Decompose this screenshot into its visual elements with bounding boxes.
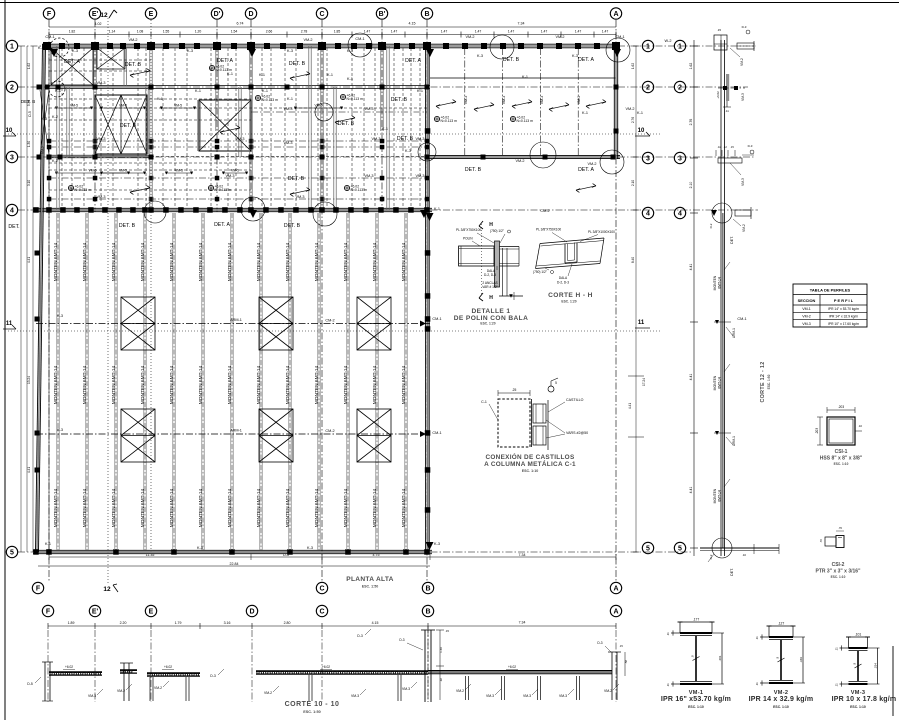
- svg-text:DET. A: DET. A: [578, 57, 594, 63]
- detail1 polin box: [459, 246, 494, 266]
- wall row5: [33, 550, 432, 553]
- svg-text:VM-3: VM-3: [741, 93, 745, 101]
- svg-text:6.74: 6.74: [237, 22, 244, 26]
- section row5 detail: [700, 538, 779, 576]
- svg-text:4.75: 4.75: [373, 553, 380, 557]
- dim text right 2.76: [631, 117, 635, 123]
- corte10 label VM-3: [523, 689, 538, 698]
- svg-text:+6.02: +6.02: [65, 665, 73, 669]
- joist labels x58: [53, 242, 59, 527]
- svg-text:K-3: K-3: [434, 542, 440, 546]
- svg-text:DET. B: DET. B: [125, 62, 142, 68]
- svg-text:ESC. 1:50: ESC. 1:50: [767, 374, 771, 389]
- svg-text:17.24: 17.24: [642, 378, 646, 386]
- corte10 col stub: [120, 663, 133, 701]
- svg-text:CASTILLO: CASTILLO: [566, 398, 584, 402]
- grid bubble B' top: [376, 8, 387, 19]
- svg-text:E': E': [92, 11, 99, 18]
- svg-text:ESC. 1:20: ESC. 1:20: [561, 300, 576, 304]
- svg-text:VM-3: VM-3: [402, 687, 410, 691]
- svg-text:K-3: K-3: [187, 49, 193, 53]
- svg-text:10: 10: [6, 128, 13, 134]
- svg-text:6MT-14: 6MT-14: [718, 277, 722, 289]
- corte10 grid dash C: [321, 630, 323, 702]
- upper block sub grid horizontals: [49, 60, 427, 190]
- svg-text:N=0.113 m: N=0.113 m: [215, 188, 232, 192]
- svg-text:4.41: 4.41: [27, 467, 31, 473]
- joist MONTEN x348: [347, 213, 349, 550]
- sheet border top: [0, 2, 899, 4]
- svg-text:K-3: K-3: [405, 149, 411, 153]
- leader arrow mark: [130, 186, 150, 195]
- svg-text:(750) 1/2": (750) 1/2": [533, 270, 547, 274]
- grid bubble 2 section: [674, 81, 685, 92]
- detail bubble: [418, 143, 436, 161]
- svg-text:CM-1: CM-1: [432, 431, 441, 435]
- title CORTE 10-10: [285, 701, 340, 714]
- grid bubble F bottom: [32, 582, 43, 593]
- svg-text:K-1: K-1: [45, 542, 51, 546]
- label K-3: [307, 546, 313, 550]
- svg-text:VM-3: VM-3: [96, 195, 105, 199]
- svg-text:VM-2: VM-2: [154, 686, 162, 690]
- svg-text:.15: .15: [730, 145, 734, 149]
- svg-text:CM-2: CM-2: [540, 209, 549, 213]
- svg-text:POLIN: POLIN: [463, 237, 473, 241]
- svg-text:1.40: 1.40: [439, 647, 443, 653]
- svg-text:1.47: 1.47: [364, 30, 371, 34]
- svg-text:MONTEN 6MT-14: MONTEN 6MT-14: [82, 242, 88, 281]
- label VM-2: [128, 38, 137, 42]
- corte10 label VM-3: [559, 689, 574, 698]
- label DET. B: [120, 123, 137, 129]
- csi2 dims: [819, 526, 844, 543]
- leader arrow mark: [130, 69, 150, 78]
- grid bubble 4 left: [6, 204, 17, 215]
- corte10 elev label: [320, 665, 332, 670]
- svg-text:B': B': [379, 11, 386, 18]
- detail1 text 750: [490, 229, 510, 243]
- svg-text:MONTEN 6MT-14: MONTEN 6MT-14: [285, 365, 291, 404]
- dim chain left a: [20, 46, 22, 552]
- grid bubble 2 left: [6, 81, 17, 92]
- grid line D: [250, 20, 252, 212]
- svg-text:2.76: 2.76: [631, 117, 635, 123]
- svg-text:MONTEN 6MT-14: MONTEN 6MT-14: [372, 488, 378, 527]
- grid bubble D top: [245, 8, 256, 19]
- table row VM-2: [802, 315, 858, 319]
- label K-3: [38, 46, 44, 50]
- svg-text:VM-5: VM-5: [119, 169, 127, 173]
- svg-text:VM-5: VM-5: [174, 104, 182, 108]
- svg-text:DET. A: DET. A: [578, 167, 594, 173]
- label DET. A: [214, 222, 230, 228]
- svg-text:.127: .127: [778, 622, 785, 626]
- svg-text:1.62: 1.62: [689, 63, 693, 70]
- cut marker 11 right: [635, 320, 650, 328]
- svg-text:VM-2: VM-2: [625, 107, 634, 111]
- grid bubble C bottom: [316, 582, 327, 593]
- svg-text:IPR 14" x 32.9 kg/m: IPR 14" x 32.9 kg/m: [829, 315, 858, 319]
- hall brace box upper x357: [357, 297, 391, 350]
- wall triangle: [613, 49, 621, 57]
- svg-text:MONTEN 6MT-14: MONTEN 6MT-14: [314, 242, 320, 281]
- corte10 label VM-2: [604, 684, 619, 693]
- svg-text:DET. A: DET. A: [217, 58, 233, 64]
- grid bubble 3 section: [674, 152, 685, 163]
- svg-text:MONTEN 6MT-14: MONTEN 6MT-14: [372, 365, 378, 404]
- cut line 11: [8, 330, 660, 332]
- grid bubble 4 right: [642, 207, 653, 218]
- colA squares: [614, 85, 619, 134]
- label VM-3: [415, 137, 424, 141]
- svg-text:1.79: 1.79: [175, 621, 182, 625]
- label K-1: [157, 97, 163, 101]
- border segment right: [892, 646, 894, 716]
- svg-text:ESC. 1:10: ESC. 1:10: [522, 469, 539, 473]
- svg-text:MONTEN 6MT-14: MONTEN 6MT-14: [343, 242, 349, 281]
- svg-text:K-1: K-1: [582, 111, 588, 115]
- svg-text:K-1: K-1: [347, 77, 353, 81]
- dim text right 1.62: [631, 63, 635, 69]
- svg-text:D-3: D-3: [597, 641, 602, 645]
- label VM-2: [555, 35, 564, 39]
- svg-text:VM-2: VM-2: [802, 315, 811, 319]
- section dim 4.41: [689, 264, 693, 271]
- svg-text:VM-3: VM-3: [523, 694, 531, 698]
- svg-text:TABLA DE PERFILES: TABLA DE PERFILES: [810, 288, 851, 293]
- svg-text:A: A: [613, 11, 618, 18]
- castillo column: [321, 46, 323, 210]
- grid bubble D' top: [211, 8, 222, 19]
- cut line 10: [8, 133, 660, 135]
- svg-text:MONTEN 6MT-14: MONTEN 6MT-14: [372, 242, 378, 281]
- svg-text:6MT-14: 6MT-14: [718, 377, 722, 389]
- svg-text:MONTEN 6MT-14: MONTEN 6MT-14: [53, 365, 59, 404]
- cut line 12 vertical: [107, 18, 109, 584]
- svg-text:.11: .11: [835, 647, 839, 651]
- svg-text:ARM-1: ARM-1: [230, 318, 242, 322]
- detail bubble: [490, 35, 514, 59]
- detail1 text POLIN: [463, 237, 480, 247]
- svg-text:K-1: K-1: [157, 97, 163, 101]
- wing sub grid vertical: [539, 48, 541, 156]
- section dim 4.41: [689, 487, 693, 494]
- svg-text:C: C: [319, 609, 324, 616]
- svg-text:IPR 14" x 53.70 kg/m: IPR 14" x 53.70 kg/m: [828, 307, 859, 311]
- label K-1: [434, 207, 440, 211]
- corte10 dim line: [48, 621, 616, 629]
- svg-text:MONTEN 6MT-14: MONTEN 6MT-14: [256, 488, 262, 527]
- grid bubble 5 section: [674, 542, 685, 553]
- section row1 detail: [714, 25, 754, 66]
- interior dim VM-5: [160, 104, 196, 110]
- svg-text:ARM-1: ARM-1: [230, 429, 242, 433]
- svg-text:VM-3: VM-3: [225, 174, 234, 178]
- csi2 squares: [825, 536, 844, 548]
- svg-text:MONTEN 6MT-14: MONTEN 6MT-14: [82, 488, 88, 527]
- label VM-3: [283, 141, 292, 145]
- svg-text:.254: .254: [874, 663, 878, 669]
- corte10 label VM-2: [456, 684, 471, 693]
- castillo column: [94, 46, 96, 154]
- svg-text:MONTEN 6MT-14: MONTEN 6MT-14: [111, 365, 117, 404]
- svg-text:MONTEN 6MT-14: MONTEN 6MT-14: [285, 488, 291, 527]
- svg-text:MONTEN 6MT-14: MONTEN 6MT-14: [82, 365, 88, 404]
- svg-text:K-3: K-3: [41, 117, 47, 121]
- svg-text:ESC. 1:10: ESC. 1:10: [688, 705, 704, 709]
- svg-text:VM-2: VM-2: [465, 35, 474, 39]
- grid line C: [321, 20, 323, 582]
- dim line top bays: [49, 30, 616, 38]
- svg-text:MONTEN 6MT-14: MONTEN 6MT-14: [343, 365, 349, 404]
- svg-text:ESC. 1:50: ESC. 1:50: [362, 585, 379, 589]
- grid bubble 1 left: [6, 40, 17, 51]
- corteH text DALA: [557, 264, 572, 285]
- svg-text:1.30: 1.30: [27, 141, 31, 147]
- svg-text:N=0.113 m: N=0.113 m: [351, 188, 368, 192]
- svg-text:VM-3: VM-3: [371, 137, 380, 141]
- svg-text:P E R F I L: P E R F I L: [834, 298, 854, 303]
- joist MONTEN x145: [144, 213, 146, 550]
- svg-text:DET. B: DET. B: [503, 57, 520, 63]
- corte10 grid dash D: [251, 630, 253, 702]
- label K-3: [197, 546, 203, 550]
- grid bubble 5 left: [6, 546, 17, 557]
- beam row y199: [47, 197, 430, 202]
- svg-text:3: 3: [10, 155, 14, 162]
- col F line: [48, 46, 50, 552]
- svg-text:H: H: [489, 295, 493, 301]
- svg-text:D-2: D-2: [709, 554, 713, 559]
- label W-2: [665, 39, 672, 43]
- detail bubble dashed: [50, 38, 69, 57]
- svg-text:13.24: 13.24: [27, 376, 31, 384]
- svg-text:K-3: K-3: [57, 428, 63, 432]
- castillo column: [198, 100, 200, 151]
- svg-text:CSI-1: CSI-1: [835, 449, 848, 455]
- svg-text:3: 3: [646, 156, 650, 163]
- svg-text:K-1: K-1: [227, 72, 233, 76]
- svg-text:DET.: DET.: [8, 224, 19, 230]
- svg-text:.349: .349: [799, 657, 803, 663]
- svg-text:CORTE 12 - 12: CORTE 12 - 12: [760, 361, 766, 402]
- upper block sub grid verticals: [62, 48, 420, 208]
- table title: [810, 288, 851, 293]
- svg-text:VM-3: VM-3: [559, 694, 567, 698]
- svg-text:PL 3/8"X750X100: PL 3/8"X750X100: [456, 228, 481, 232]
- wall triangle: [426, 213, 434, 221]
- svg-text:1.47: 1.47: [602, 30, 609, 34]
- corte10 label D-3: [357, 629, 371, 638]
- plan bottom dim B-A: [430, 553, 616, 560]
- label DET. A: [64, 59, 80, 65]
- dim text left 4.41: [27, 467, 31, 473]
- svg-text:.177: .177: [693, 618, 700, 622]
- svg-text:IPR 10" x 17.60 kg/m: IPR 10" x 17.60 kg/m: [828, 322, 859, 326]
- section column: [721, 40, 725, 556]
- grid bubble A bottom: [610, 582, 621, 593]
- castillo column: [146, 87, 148, 154]
- svg-text:DET. B: DET. B: [288, 176, 305, 182]
- svg-text:4: 4: [678, 211, 682, 218]
- elevation mark +6.02: [68, 184, 91, 192]
- corte10 col x539: [538, 676, 541, 700]
- wall row1: [42, 44, 620, 48]
- corte10 bubble B: [422, 605, 433, 616]
- grid bubble 4 section: [674, 207, 685, 218]
- wing sub grid vertical: [464, 48, 466, 156]
- label K-3: [405, 149, 411, 153]
- dim chain left b: [26, 46, 28, 552]
- title CORTE 12: [760, 361, 771, 402]
- svg-text:MONTEN 6MT-14: MONTEN 6MT-14: [169, 365, 175, 404]
- cut marker 10 left: [3, 128, 16, 136]
- svg-text:VM-2: VM-2: [128, 38, 137, 42]
- svg-text:MONTEN 6MT-14: MONTEN 6MT-14: [169, 242, 175, 281]
- label DET.: [8, 224, 19, 230]
- castillo column: [334, 87, 336, 210]
- label DET. B: [465, 167, 482, 173]
- label K-3: [572, 54, 578, 58]
- svg-text:.11: .11: [666, 632, 670, 636]
- wall triangle: [248, 49, 256, 57]
- corte10 label VM-3: [486, 689, 501, 698]
- svg-text:.203: .203: [815, 428, 819, 434]
- svg-text:MONTEN: MONTEN: [713, 375, 717, 390]
- svg-text:MONTEN 6MT-14: MONTEN 6MT-14: [111, 242, 117, 281]
- svg-text:VM-5: VM-5: [70, 104, 78, 108]
- leader arrow mark: [220, 126, 240, 135]
- svg-text:A COLUMNA METÁLICA C-1: A COLUMNA METÁLICA C-1: [484, 459, 576, 468]
- svg-text:1.47: 1.47: [508, 30, 515, 34]
- svg-text:K-3: K-3: [307, 546, 313, 550]
- grid bubble B top: [421, 8, 432, 19]
- corte10 label VM-2: [264, 686, 279, 695]
- grid line 1: [18, 45, 756, 47]
- detail1 text DALA: [484, 266, 497, 277]
- section tick 11: [714, 320, 736, 338]
- dim text right 2.10: [631, 180, 635, 186]
- svg-text:F: F: [36, 586, 41, 593]
- svg-text:.11: .11: [717, 145, 721, 149]
- svg-text:MONTEN 6MT-14: MONTEN 6MT-14: [314, 488, 320, 527]
- svg-text:MONTEN: MONTEN: [713, 488, 717, 503]
- svg-text:.11: .11: [666, 683, 670, 687]
- castillo column: [67, 87, 69, 157]
- svg-text:D-3: D-3: [742, 25, 747, 29]
- svg-text:+6.02: +6.02: [716, 91, 720, 99]
- wall right B: [426, 44, 430, 554]
- svg-text:1.47: 1.47: [391, 30, 398, 34]
- leader arrow mark: [290, 188, 310, 197]
- svg-text:.76: .76: [819, 539, 823, 543]
- svg-text:E': E': [92, 609, 99, 616]
- label K-1: [227, 72, 233, 76]
- svg-text:12: 12: [100, 12, 108, 19]
- label CM-1: [737, 317, 746, 321]
- svg-text:10: 10: [638, 128, 645, 134]
- svg-text:VM-3: VM-3: [540, 96, 544, 105]
- svg-text:6MT-14: 6MT-14: [718, 490, 722, 502]
- svg-text:.11: .11: [755, 682, 759, 686]
- svg-text:MONTEN 6MT-14: MONTEN 6MT-14: [140, 488, 146, 527]
- svg-text:DET. B: DET. B: [465, 167, 482, 173]
- svg-text:VM-5: VM-5: [175, 169, 183, 173]
- label CM-1: [432, 317, 441, 321]
- label K-3: [57, 428, 63, 432]
- svg-text:2.10: 2.10: [689, 182, 693, 189]
- svg-text:MONTEN 6MT-14: MONTEN 6MT-14: [227, 365, 233, 404]
- svg-text:.11: .11: [725, 109, 729, 113]
- dim line top overall: [49, 22, 616, 28]
- grid bubble 3 right: [642, 152, 653, 163]
- grid line B': [381, 20, 383, 212]
- grid line A: [615, 20, 617, 582]
- label K-3: [347, 49, 353, 53]
- corte10 bubble C: [316, 605, 327, 616]
- svg-text:K-1: K-1: [434, 207, 440, 211]
- joist MONTEN x58: [57, 213, 59, 550]
- label CM-1: [432, 431, 441, 435]
- section dim 2.10: [689, 182, 693, 189]
- wall triangle: [249, 210, 257, 218]
- detail bubble: [313, 202, 337, 226]
- svg-text:B: B: [424, 11, 429, 18]
- csi1 dim left: [815, 417, 823, 445]
- row1 wall squares: [43, 42, 620, 50]
- detail bubble: [315, 103, 333, 121]
- joist labels x319: [314, 242, 320, 527]
- svg-text:CONEXIÓN DE CASTILLOS: CONEXIÓN DE CASTILLOS: [485, 452, 574, 461]
- label K-1: [522, 75, 528, 79]
- svg-text:A: A: [613, 586, 618, 593]
- grid bubble 5 right: [642, 542, 653, 553]
- castillo column: [150, 46, 152, 210]
- label K-1: [55, 89, 61, 93]
- conexion label VARS: [546, 420, 588, 438]
- svg-text:VM-3: VM-3: [351, 694, 359, 698]
- grid bubble 2 right: [642, 81, 653, 92]
- svg-text:1.89: 1.89: [68, 621, 75, 625]
- svg-text:1.08: 1.08: [137, 30, 144, 34]
- label D-5 rot: [28, 111, 32, 117]
- csi1 title: [820, 449, 863, 466]
- svg-text:5: 5: [555, 381, 557, 385]
- svg-text:VM-3: VM-3: [295, 195, 304, 199]
- svg-text:1.47: 1.47: [475, 30, 482, 34]
- svg-text:CM-1: CM-1: [355, 37, 364, 41]
- svg-text:VM-2: VM-2: [41, 146, 45, 154]
- section dim 2.76: [689, 119, 693, 126]
- svg-text:2: 2: [646, 85, 650, 92]
- svg-text:1.82: 1.82: [69, 30, 76, 34]
- label K-3: [287, 49, 293, 53]
- conexion dim top: [498, 388, 530, 396]
- title PLANTA ALTA: [346, 576, 394, 589]
- joist labels x174: [169, 242, 175, 527]
- corte10 elev label: [506, 665, 518, 670]
- svg-text:VM-2: VM-2: [587, 162, 596, 166]
- svg-text:DET. B: DET. B: [391, 97, 408, 103]
- svg-text:4.15: 4.15: [409, 22, 416, 26]
- svg-text:2: 2: [10, 85, 14, 92]
- svg-text:22.84: 22.84: [230, 562, 239, 566]
- svg-text:MONTEN 6MT-14: MONTEN 6MT-14: [198, 488, 204, 527]
- csi1 dim top: [827, 405, 855, 413]
- svg-text:CORTE 10 - 10: CORTE 10 - 10: [285, 701, 340, 708]
- hall brace box upper x259: [259, 297, 293, 350]
